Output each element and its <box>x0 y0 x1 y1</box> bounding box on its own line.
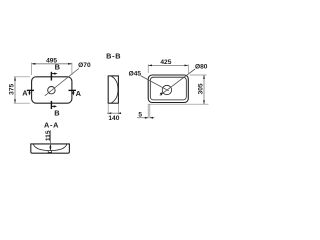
svg-text:A: A <box>76 89 82 98</box>
svg-text:B: B <box>55 63 60 72</box>
svg-text:A-A: A-A <box>44 121 59 130</box>
svg-text:Ø45: Ø45 <box>129 70 142 77</box>
svg-text:5: 5 <box>138 112 142 119</box>
svg-text:115: 115 <box>45 130 52 141</box>
svg-text:140: 140 <box>108 115 119 122</box>
svg-text:Ø80: Ø80 <box>195 63 208 70</box>
svg-text:305: 305 <box>197 83 204 94</box>
svg-text:Ø70: Ø70 <box>78 62 91 69</box>
svg-text:375: 375 <box>8 83 15 94</box>
svg-text:B-B: B-B <box>106 52 121 61</box>
svg-text:425: 425 <box>160 59 171 66</box>
svg-text:B: B <box>54 109 59 118</box>
svg-text:A: A <box>22 89 28 98</box>
